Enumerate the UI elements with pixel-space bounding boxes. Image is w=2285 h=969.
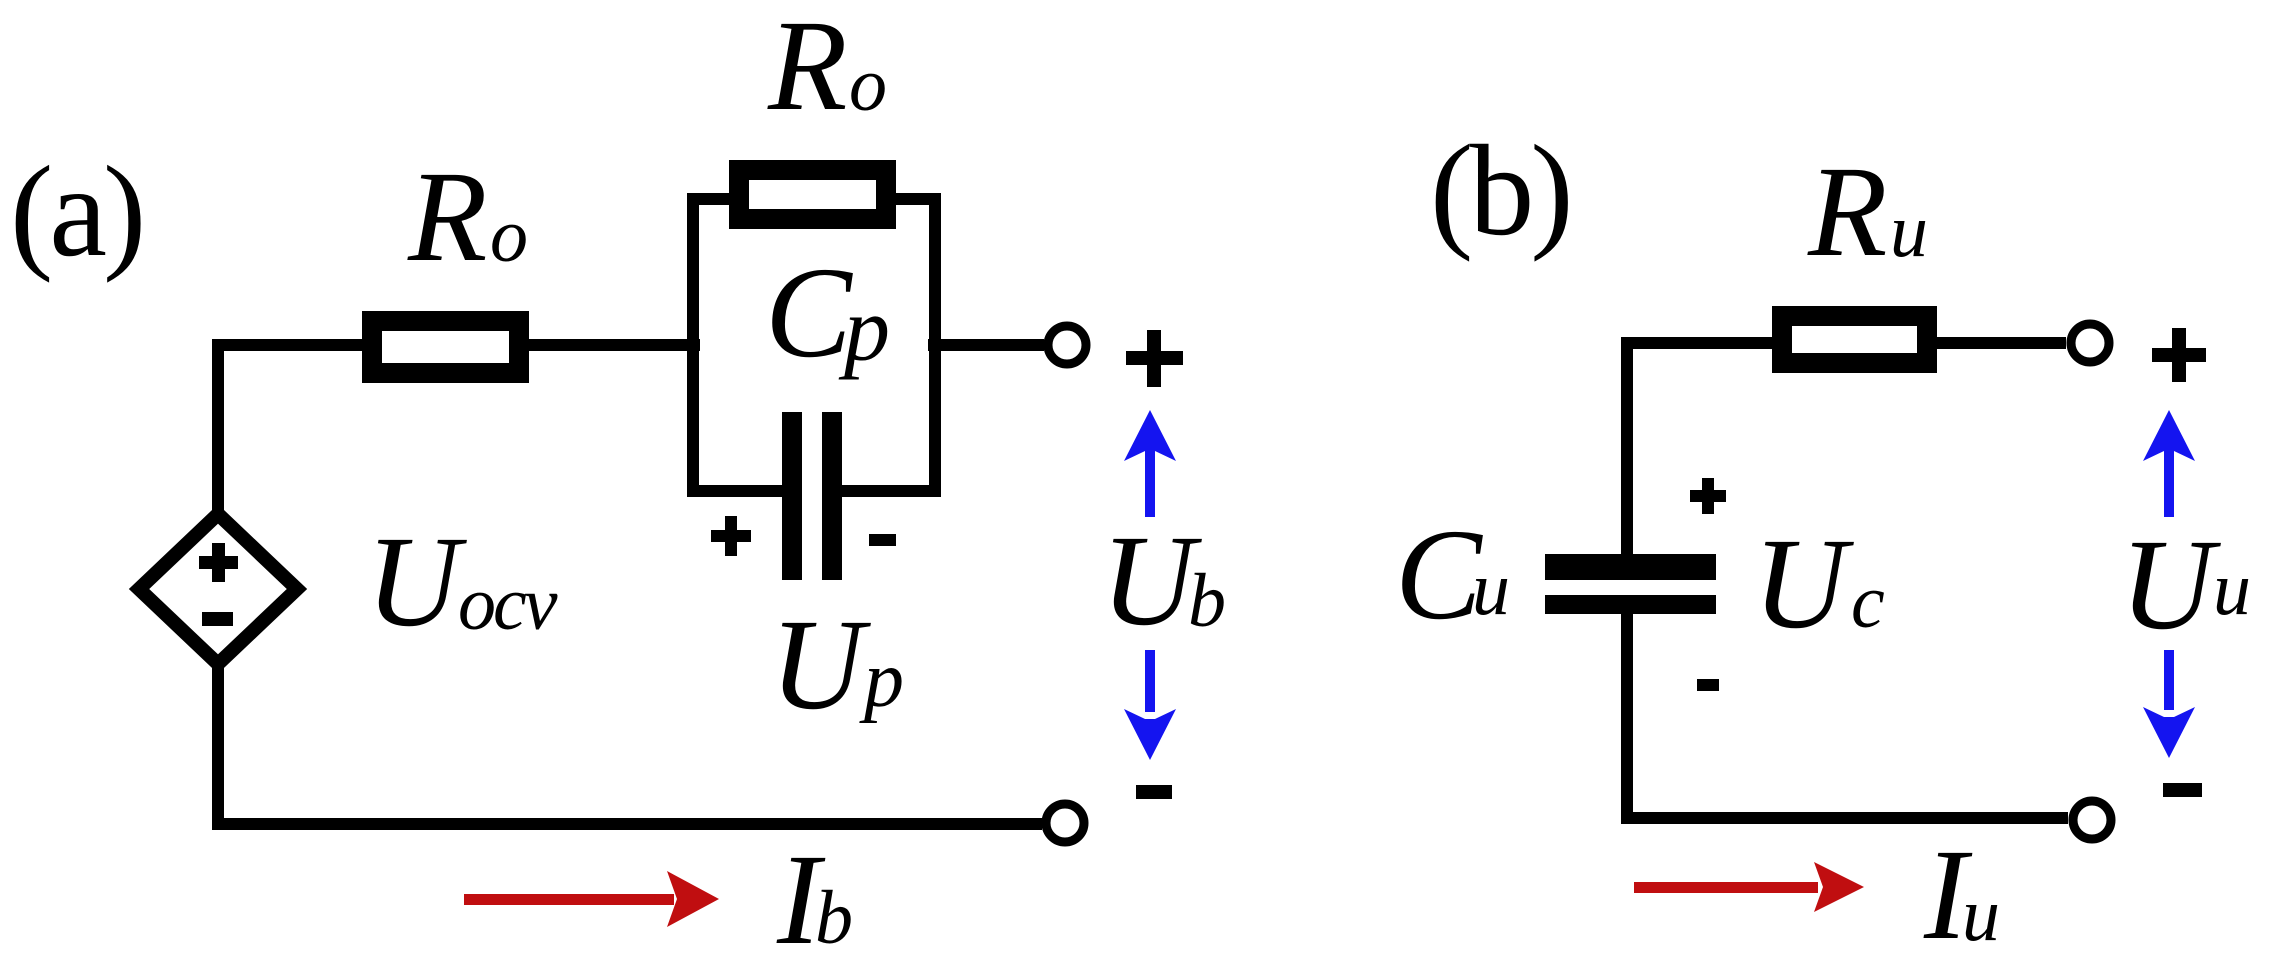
svg-text:R: R <box>407 145 487 289</box>
svg-text:o: o <box>849 43 887 127</box>
svg-text:u: u <box>1962 873 2000 957</box>
svg-text:C: C <box>1395 503 1483 647</box>
svg-text:c: c <box>1851 560 1885 644</box>
svg-text:R: R <box>767 0 847 138</box>
svg-text:u: u <box>2213 547 2251 631</box>
svg-text:U: U <box>2120 513 2221 657</box>
svg-text:U: U <box>770 593 871 737</box>
svg-text:b: b <box>815 876 853 960</box>
svg-text:o: o <box>490 194 528 278</box>
svg-text:C: C <box>765 241 853 385</box>
svg-text:u: u <box>1472 547 1510 631</box>
svg-text:(b): (b) <box>1430 119 1570 263</box>
svg-text:b: b <box>1188 559 1226 643</box>
svg-text:p: p <box>859 636 904 724</box>
svg-text:U: U <box>1101 509 1202 653</box>
svg-text:ocv: ocv <box>458 562 558 646</box>
svg-text:u: u <box>1890 189 1928 273</box>
svg-text:R: R <box>1807 140 1887 284</box>
svg-text:U: U <box>366 510 467 654</box>
svg-text:(a): (a) <box>10 140 142 284</box>
svg-text:U: U <box>1753 512 1854 656</box>
svg-text:p: p <box>838 278 890 380</box>
